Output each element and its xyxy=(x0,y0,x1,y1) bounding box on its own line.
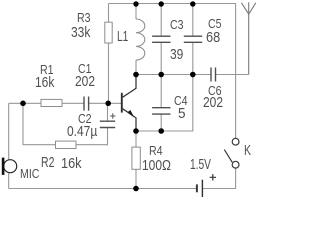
wire bottom rail xyxy=(9,168,236,188)
node dot tank C5 bottom xyxy=(190,72,196,78)
label C1 xyxy=(78,63,92,75)
resistor R3 xyxy=(105,22,112,43)
resistor R2 xyxy=(56,141,77,148)
node dot emitter C4 xyxy=(158,128,164,134)
node dot bottom R4 xyxy=(133,186,139,192)
wire C3 column xyxy=(160,4,162,75)
wire C5 column xyxy=(192,4,194,75)
wire C5 to emitter row xyxy=(136,75,193,132)
label MIC xyxy=(20,168,39,180)
label R4 value xyxy=(142,158,171,173)
capacitor C2 plus xyxy=(110,113,115,118)
battery 1.5V short bar xyxy=(196,184,198,192)
wire left drop to MIC xyxy=(8,103,10,160)
wire main base wire xyxy=(9,102,122,104)
wire L1 column stubs xyxy=(135,4,137,75)
label K xyxy=(244,143,251,158)
wire R2 branch xyxy=(23,103,108,144)
capacitor C1 xyxy=(84,97,89,111)
label R4 xyxy=(149,145,163,157)
capacitor C5 xyxy=(184,36,202,42)
label C1 value xyxy=(75,74,95,89)
node dot base junction xyxy=(105,101,111,107)
node dot top L1 xyxy=(133,1,138,6)
wire MIC to bottom rail xyxy=(8,173,10,189)
wire antenna feed xyxy=(248,2,250,74)
transistor Q1 emitter arrow xyxy=(127,110,134,118)
resistor R1 xyxy=(41,99,62,106)
label battery value xyxy=(190,157,211,172)
node dot top C3 xyxy=(159,1,164,6)
label R2 xyxy=(41,155,54,170)
capacitor C6 xyxy=(211,68,216,82)
wire R3 column xyxy=(108,4,110,104)
label R3 value xyxy=(71,25,90,40)
transistor Q1 collector xyxy=(123,75,136,97)
label C6 xyxy=(208,85,222,97)
microphone MIC xyxy=(4,160,17,173)
label C2 xyxy=(78,113,92,125)
wire R4 column xyxy=(135,131,137,189)
wire tank row y74.5 xyxy=(136,74,249,76)
label R1 xyxy=(40,64,54,76)
switch K circles xyxy=(232,138,239,145)
battery plus xyxy=(210,174,216,180)
node dot tank C3 bottom xyxy=(158,72,164,78)
label C4 xyxy=(174,95,188,107)
label R1 value xyxy=(35,75,54,90)
capacitor C3 xyxy=(152,36,170,42)
label C3 value xyxy=(170,47,183,62)
label R3 xyxy=(77,12,91,24)
battery 1.5V long bar xyxy=(201,180,203,197)
label C2 value xyxy=(67,124,97,139)
capacitor C2 xyxy=(100,121,115,127)
node dot top C5 xyxy=(190,1,195,6)
wire top rail xyxy=(109,3,237,5)
capacitor C4 xyxy=(152,108,170,114)
switch K lever xyxy=(224,150,232,163)
node dot tank L1 bottom xyxy=(133,72,139,78)
label C6 value xyxy=(203,95,223,110)
label C4 value xyxy=(178,106,186,121)
label C5 value xyxy=(206,30,220,45)
wire right rail to switch xyxy=(235,4,237,139)
node dot emitter xyxy=(133,128,139,134)
transistor Q1 base bar xyxy=(121,93,123,113)
resistor R4 xyxy=(132,147,140,169)
transistor Q1 emitter xyxy=(123,109,136,131)
label C3 xyxy=(170,19,184,31)
wire C2 top to junction xyxy=(107,103,109,121)
node dot base left xyxy=(20,101,26,107)
wire C4 column xyxy=(160,75,162,132)
antenna xyxy=(242,3,256,14)
label R2 value xyxy=(61,156,82,171)
label C5 xyxy=(208,18,222,30)
inductor L1 xyxy=(136,19,145,60)
label L1 xyxy=(117,29,128,44)
